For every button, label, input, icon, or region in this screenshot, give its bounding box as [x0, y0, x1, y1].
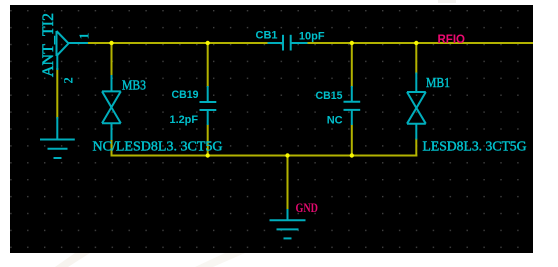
junction top net / MB3: [109, 41, 113, 45]
wire: CB15 bottom to rail: [351, 125, 353, 156]
svg-text:NC: NC: [327, 115, 343, 127]
junction rail / GND: [285, 153, 289, 157]
svg-text:MB1: MB1: [426, 76, 450, 91]
svg-text:LESD8L3. 3CT5G: LESD8L3. 3CT5G: [423, 140, 527, 155]
svg-text:1.2pF: 1.2pF: [170, 114, 199, 126]
wire: top net down to MB1: [415, 43, 417, 74]
ANT_TI2 pin 1: [69, 42, 89, 44]
ground symbol GND (bottom rail): [270, 209, 306, 238]
svg-text:MB3: MB3: [122, 79, 146, 94]
page shadow smudge bottom-left: [55, 253, 90, 267]
wire: bottom ground rail: [111, 155, 418, 157]
wire: top net down to CB15: [351, 43, 353, 87]
junction top net / CB15: [350, 41, 354, 45]
TVS diode MB3 symbol: [102, 75, 121, 140]
capacitor CB1 symbol (series): [268, 35, 308, 51]
ANT_TI2 pin 2 stub: [56, 55, 58, 70]
wire: main top net from ANT pin1 to CB1 left lead: [87, 42, 268, 44]
svg-text:CB1: CB1: [256, 30, 278, 42]
svg-text:NC/LESD8L3. 3CT5G: NC/LESD8L3. 3CT5G: [93, 140, 223, 155]
capacitor CB15 symbol: [344, 86, 361, 125]
capacitor CB19 symbol: [200, 86, 217, 125]
svg-text:GND: GND: [296, 200, 319, 215]
ground symbol left (ANT pin2): [40, 117, 75, 158]
svg-text:2: 2: [62, 77, 76, 83]
TVS diode MB1 symbol: [407, 73, 426, 140]
svg-text:ANT_TI2: ANT_TI2: [40, 13, 57, 77]
wire: top net down to MB3: [111, 43, 113, 76]
svg-text:1: 1: [78, 33, 93, 40]
wire: CB19 bottom to rail: [207, 125, 209, 156]
wire: MB3 bottom to rail: [111, 139, 113, 157]
wire: rail down to GND symbol: [287, 156, 289, 211]
wire: MB1 bottom to rail: [415, 139, 417, 157]
junction rail / CB15: [350, 153, 354, 157]
page smudge top-right: [438, 0, 456, 3]
wire: main top net from CB1 right lead to panel edge (RFIO): [307, 42, 533, 44]
wire: ANT pin2 to left ground: [56, 68, 58, 119]
junction top net / MB1: [414, 41, 418, 45]
svg-text:CB15: CB15: [316, 90, 343, 102]
junction top net / CB19: [206, 41, 210, 45]
svg-text:RFIO: RFIO: [438, 34, 466, 46]
wire: top net down to CB19: [207, 43, 209, 87]
junction rail / CB19: [206, 153, 210, 157]
connector J ANT_TI2 symbol triangle: [57, 31, 69, 56]
page shadow smudge bottom-center: [195, 253, 245, 267]
svg-text:CB19: CB19: [172, 89, 199, 101]
svg-text:10pF: 10pF: [299, 30, 325, 42]
